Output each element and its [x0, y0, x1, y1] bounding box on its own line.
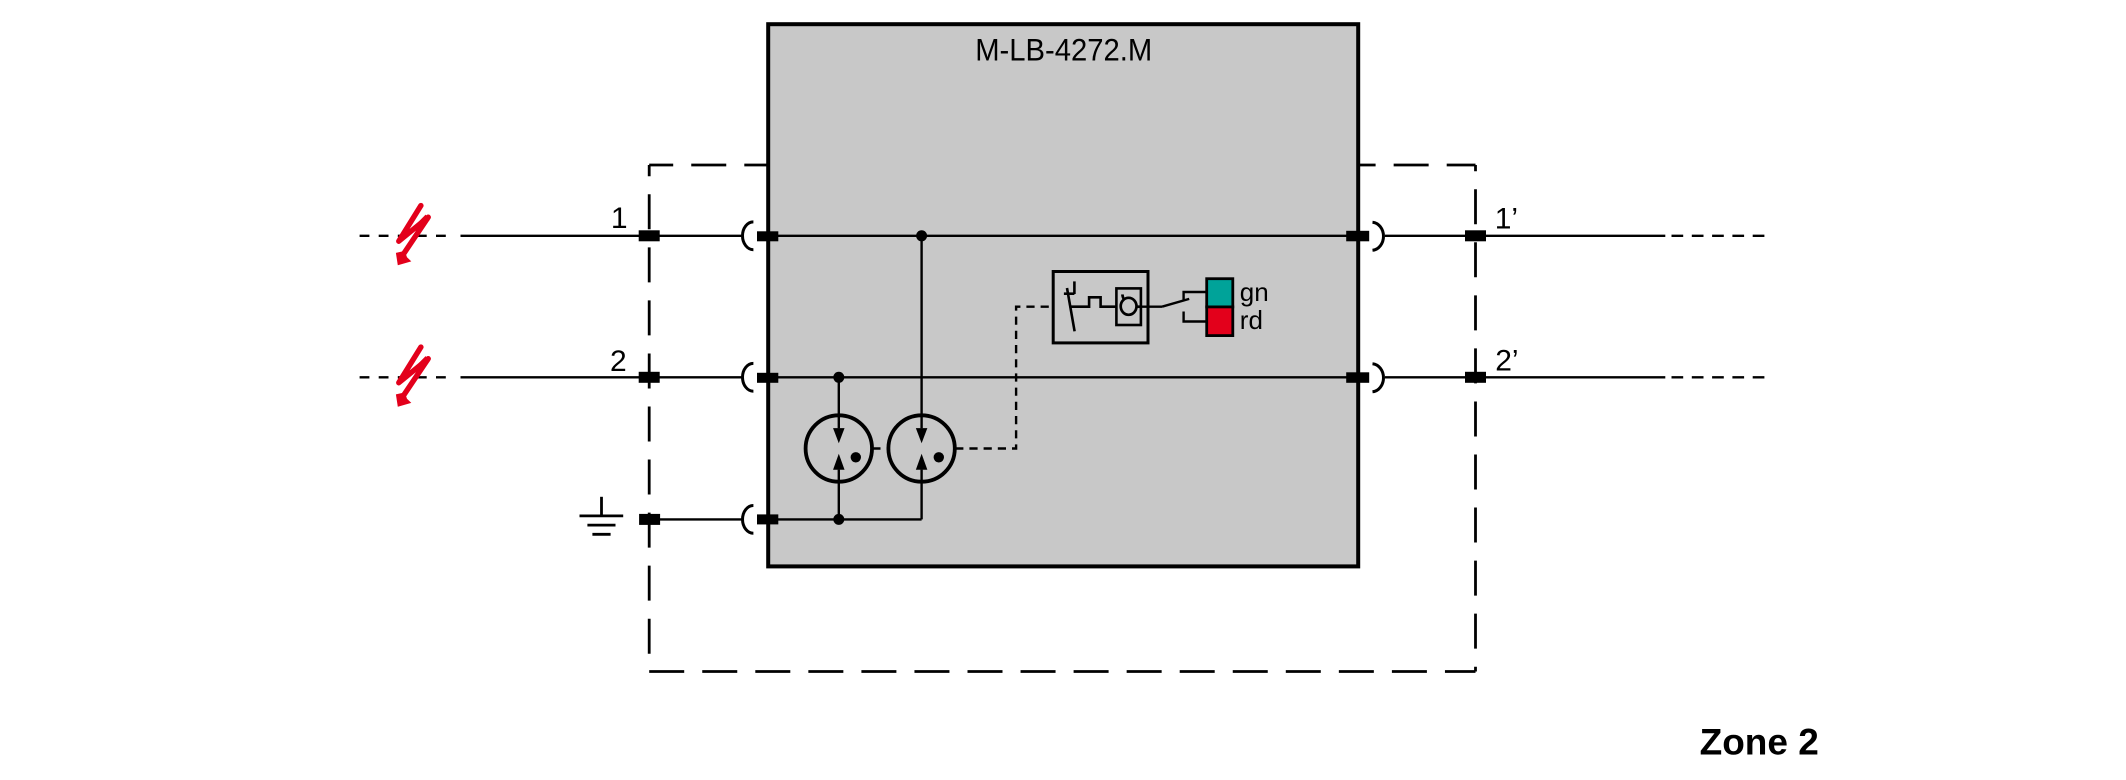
- LED gn (green): [1207, 279, 1233, 307]
- module pin line 1 right (square): [1346, 231, 1369, 242]
- wire: line 1 left segment: [461, 235, 743, 237]
- wire: monitor output: [1141, 306, 1162, 308]
- svg-text:2’: 2’: [1495, 345, 1518, 378]
- svg-text:Zone 2: Zone 2: [1700, 722, 1819, 763]
- wire: line 2 right lead-out (dashed): [1672, 376, 1765, 378]
- LED rd (red): [1207, 307, 1233, 336]
- wire: vertical arrester G2 to earth line: [920, 470, 922, 520]
- svg-text:1: 1: [611, 202, 628, 235]
- svg-text:M-LB-4272.M: M-LB-4272.M: [975, 31, 1152, 67]
- surge impulse arrow on line 1: [396, 206, 430, 266]
- wire: vertical line 1 to arrester G2: [920, 236, 922, 428]
- terminal 1' (zone boundary square): [1465, 230, 1486, 241]
- node: junction earth line: [833, 514, 844, 525]
- surge arrester G2 (gas discharge tube line 1 - earth): [888, 415, 954, 481]
- zone 2 boundary top edge left part (dashed): [649, 164, 770, 167]
- module body M-LB-4272.M (grey box): [768, 24, 1358, 566]
- wire: line 1 right lead-out (dashed): [1672, 235, 1765, 237]
- wire: earth line outside module: [640, 518, 743, 520]
- svg-text:2: 2: [610, 345, 627, 378]
- changeover contact blade: [1162, 299, 1189, 307]
- node: junction line 1: [916, 230, 927, 241]
- zone 2 boundary left edge (dashed): [648, 165, 651, 672]
- thermal disconnect switch (fixed contact): [1064, 281, 1075, 294]
- wire: vertical line 2 to arrester G1: [838, 377, 840, 428]
- monitoring device box: [1053, 272, 1148, 343]
- module pin line 2 right (square): [1346, 372, 1369, 383]
- dashed link arrester G2 to monitoring device: [955, 307, 1053, 449]
- ground symbol: [580, 497, 624, 535]
- zone 2 boundary right edge (dashed): [1474, 165, 1477, 672]
- module pin earth (square): [757, 514, 778, 524]
- dashed link between arresters: [873, 447, 889, 449]
- socket contact line 1 right (arc): [1373, 222, 1384, 250]
- theta glyph: [1121, 294, 1141, 314]
- contact to LED rd: [1184, 312, 1207, 322]
- wire: line 2 left segment: [461, 376, 743, 378]
- zone 2 boundary bottom edge (dashed): [649, 670, 1475, 673]
- wire: line 1 right segment: [1385, 235, 1665, 237]
- contact to LED gn: [1184, 292, 1207, 300]
- terminal 2 (zone boundary square): [639, 372, 660, 383]
- wire: line 1 left lead-in (dashed): [360, 235, 453, 237]
- svg-text:1’: 1’: [1495, 203, 1518, 236]
- terminal 2' (zone boundary square): [1465, 372, 1486, 383]
- terminal 1 (zone boundary square): [639, 230, 660, 241]
- wire: line 2 right segment: [1385, 376, 1665, 378]
- socket contact line 2 left (arc): [743, 363, 754, 391]
- thermal disconnect switch (blade): [1067, 288, 1075, 331]
- socket contact line 1 left (arc): [743, 222, 754, 250]
- svg-text:gn: gn: [1240, 277, 1269, 307]
- wire: line 2 inside module: [758, 376, 1368, 378]
- wire: vertical arrester G1 to earth line: [838, 470, 840, 520]
- svg-text:rd: rd: [1240, 305, 1263, 335]
- module pin line 2 left (square): [757, 373, 778, 383]
- socket contact earth (arc): [743, 506, 754, 534]
- temperature sensor box: [1116, 288, 1141, 325]
- zone 2 boundary top edge right part (dashed): [1356, 164, 1476, 167]
- socket contact line 2 right (arc): [1373, 364, 1384, 392]
- wire: earth line inside module: [758, 518, 922, 520]
- wire: line 1 inside module: [758, 235, 1368, 237]
- wire: line 2 left lead-in (dashed): [360, 376, 453, 378]
- module pin line 1 left (square): [757, 231, 778, 241]
- surge impulse arrow on line 2: [396, 347, 430, 407]
- monitor wire with step signal: [1071, 297, 1117, 306]
- surge arrester G1 (gas discharge tube line 2 - earth): [806, 415, 872, 481]
- terminal earth (zone boundary square): [639, 514, 660, 525]
- node: junction line 2: [833, 372, 844, 383]
